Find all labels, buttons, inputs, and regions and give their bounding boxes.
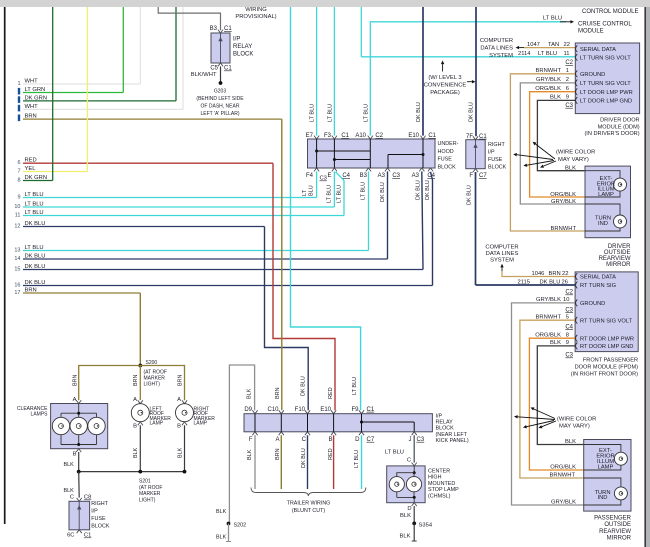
svg-text:DRIVER DOOR: DRIVER DOOR bbox=[600, 118, 639, 124]
svg-text:(IN RIGHT FRONT DOOR): (IN RIGHT FRONT DOOR) bbox=[571, 372, 638, 378]
svg-text:RT DOOR LMP GND: RT DOOR LMP GND bbox=[580, 344, 633, 350]
svg-text:26: 26 bbox=[562, 279, 568, 285]
svg-text:G203: G203 bbox=[214, 89, 226, 95]
svg-text:C7: C7 bbox=[367, 437, 375, 443]
svg-text:BRN: BRN bbox=[133, 375, 139, 386]
svg-text:KICK PANEL): KICK PANEL) bbox=[436, 438, 469, 444]
svg-text:LAMPS: LAMPS bbox=[31, 412, 49, 418]
svg-text:GROUND: GROUND bbox=[580, 72, 605, 78]
svg-text:1: 1 bbox=[566, 68, 569, 74]
svg-text:S354: S354 bbox=[419, 523, 433, 529]
svg-text:I/P: I/P bbox=[91, 508, 98, 514]
svg-text:LAMP: LAMP bbox=[598, 465, 614, 471]
svg-text:(BEHIND LEFT SIDE: (BEHIND LEFT SIDE bbox=[196, 96, 244, 102]
svg-text:SERIAL DATA: SERIAL DATA bbox=[580, 275, 616, 281]
svg-text:11: 11 bbox=[563, 51, 569, 57]
svg-text:BRNWHT: BRNWHT bbox=[550, 472, 576, 478]
svg-text:5: 5 bbox=[566, 314, 569, 320]
svg-text:ORG/BLK: ORG/BLK bbox=[550, 464, 576, 470]
svg-text:E10: E10 bbox=[408, 133, 419, 139]
svg-text:BLK: BLK bbox=[550, 95, 561, 101]
svg-text:LT BLU: LT BLU bbox=[543, 16, 562, 22]
svg-text:RT TURN SIG: RT TURN SIG bbox=[580, 283, 616, 289]
svg-text:BLK: BLK bbox=[133, 447, 139, 458]
svg-text:REARVIEW: REARVIEW bbox=[599, 529, 631, 535]
svg-text:7: 7 bbox=[17, 169, 20, 175]
svg-text:9: 9 bbox=[17, 195, 20, 201]
svg-text:GRY/BLK: GRY/BLK bbox=[536, 297, 561, 303]
svg-text:LIGHT): LIGHT) bbox=[139, 497, 156, 503]
svg-text:FUSE: FUSE bbox=[91, 516, 106, 522]
svg-text:LAMP: LAMP bbox=[598, 192, 614, 198]
svg-text:8: 8 bbox=[17, 178, 20, 184]
svg-text:MIRROR: MIRROR bbox=[607, 536, 632, 542]
svg-text:PROVISIONAL): PROVISIONAL) bbox=[235, 14, 276, 20]
svg-text:DK BLU: DK BLU bbox=[415, 180, 421, 200]
svg-text:GRY/BLK: GRY/BLK bbox=[551, 199, 576, 205]
svg-text:OUTSIDE: OUTSIDE bbox=[604, 522, 631, 528]
svg-text:BLOCK: BLOCK bbox=[438, 165, 457, 171]
svg-text:LT BLU: LT BLU bbox=[354, 450, 360, 468]
svg-text:12: 12 bbox=[14, 224, 20, 230]
svg-text:B3: B3 bbox=[210, 26, 218, 32]
svg-text:SYSTEM: SYSTEM bbox=[490, 258, 514, 264]
svg-text:F9: F9 bbox=[351, 407, 359, 413]
svg-text:F10: F10 bbox=[295, 407, 306, 413]
svg-text:DATA LINES: DATA LINES bbox=[480, 46, 513, 52]
svg-text:F4: F4 bbox=[306, 173, 314, 179]
svg-text:BRN: BRN bbox=[73, 375, 79, 386]
svg-text:(CHMSL): (CHMSL) bbox=[428, 493, 451, 499]
svg-text:(WIRE COLOR: (WIRE COLOR bbox=[556, 150, 595, 156]
svg-text:HOOD: HOOD bbox=[438, 149, 454, 155]
svg-text:LT: LT bbox=[302, 189, 308, 196]
svg-text:CONVENIENCE: CONVENIENCE bbox=[424, 82, 467, 88]
svg-text:CRUISE CONTROL: CRUISE CONTROL bbox=[578, 22, 632, 28]
svg-text:D: D bbox=[407, 506, 411, 512]
svg-text:FRONT PASSENGER: FRONT PASSENGER bbox=[583, 357, 638, 363]
svg-text:2: 2 bbox=[566, 77, 569, 83]
svg-text:BLK: BLK bbox=[64, 488, 75, 494]
svg-text:22: 22 bbox=[564, 42, 570, 48]
svg-text:B: B bbox=[177, 424, 181, 430]
svg-text:RT TURN SIG VOLT: RT TURN SIG VOLT bbox=[580, 318, 633, 324]
svg-text:DK BLU: DK BLU bbox=[380, 182, 386, 202]
svg-text:10: 10 bbox=[563, 297, 569, 303]
svg-text:I/P: I/P bbox=[233, 37, 240, 43]
svg-text:13: 13 bbox=[14, 248, 20, 254]
svg-text:(AT ROOF: (AT ROOF bbox=[139, 485, 162, 491]
svg-text:MODULE: MODULE bbox=[578, 29, 604, 35]
svg-text:FUSE: FUSE bbox=[438, 157, 453, 163]
svg-text:LT TURN SIG VOLT: LT TURN SIG VOLT bbox=[580, 81, 631, 87]
svg-text:BLK: BLK bbox=[565, 439, 576, 445]
svg-text:BLOCK: BLOCK bbox=[436, 426, 455, 432]
svg-text:1: 1 bbox=[17, 81, 20, 87]
svg-text:BLOCK: BLOCK bbox=[488, 165, 507, 171]
svg-text:MARKER: MARKER bbox=[144, 376, 166, 382]
svg-text:A: A bbox=[133, 397, 137, 403]
svg-text:10: 10 bbox=[14, 204, 20, 210]
svg-text:BRNWHT: BRNWHT bbox=[536, 68, 562, 74]
svg-text:C: C bbox=[407, 458, 411, 464]
svg-text:F: F bbox=[249, 437, 253, 443]
svg-text:C2: C2 bbox=[565, 60, 573, 66]
svg-text:RED: RED bbox=[328, 448, 334, 460]
svg-text:17: 17 bbox=[14, 290, 20, 296]
svg-text:C10: C10 bbox=[267, 407, 279, 413]
svg-text:MAY VARY): MAY VARY) bbox=[558, 157, 589, 163]
svg-text:MODULE (DDM): MODULE (DDM) bbox=[598, 125, 640, 131]
svg-text:16: 16 bbox=[14, 283, 20, 289]
svg-text:RELAY: RELAY bbox=[436, 420, 454, 426]
svg-text:C3: C3 bbox=[565, 103, 573, 109]
svg-text:DK BLU: DK BLU bbox=[416, 102, 422, 122]
svg-text:9: 9 bbox=[566, 340, 569, 346]
svg-text:LT BLU: LT BLU bbox=[327, 185, 333, 203]
svg-text:C3: C3 bbox=[392, 173, 400, 179]
svg-text:RT DOOR LMP PWR: RT DOOR LMP PWR bbox=[580, 336, 634, 342]
svg-text:C3: C3 bbox=[320, 176, 327, 182]
svg-text:DK BLU: DK BLU bbox=[425, 180, 431, 200]
svg-text:FUSE: FUSE bbox=[488, 157, 503, 163]
svg-text:6: 6 bbox=[566, 86, 569, 92]
svg-text:LT BLU: LT BLU bbox=[352, 377, 358, 395]
svg-text:1046: 1046 bbox=[532, 271, 545, 277]
svg-text:J: J bbox=[409, 437, 412, 443]
svg-text:BRNWHT: BRNWHT bbox=[536, 314, 562, 320]
svg-text:22: 22 bbox=[562, 271, 568, 277]
svg-text:SYSTEM: SYSTEM bbox=[489, 53, 513, 59]
svg-text:SERIAL DATA: SERIAL DATA bbox=[580, 47, 616, 53]
svg-text:BRN: BRN bbox=[178, 375, 184, 386]
svg-text:DOOR MODULE (FPDM): DOOR MODULE (FPDM) bbox=[575, 365, 639, 371]
svg-text:DK BLU: DK BLU bbox=[540, 279, 561, 285]
svg-text:B: B bbox=[133, 424, 137, 430]
svg-text:BLOCK: BLOCK bbox=[91, 524, 110, 530]
svg-text:BLK: BLK bbox=[565, 165, 576, 171]
svg-text:LT DOOR LMP GND: LT DOOR LMP GND bbox=[580, 99, 632, 105]
svg-text:6C: 6C bbox=[67, 533, 74, 539]
svg-text:(BLUNT CUT): (BLUNT CUT) bbox=[292, 508, 325, 514]
svg-text:A3: A3 bbox=[412, 173, 420, 179]
svg-text:C4: C4 bbox=[342, 173, 350, 179]
svg-text:BLK: BLK bbox=[247, 449, 253, 460]
svg-text:8: 8 bbox=[566, 332, 569, 338]
svg-text:BLU: BLU bbox=[308, 185, 314, 196]
svg-text:7F: 7F bbox=[466, 134, 473, 140]
svg-text:DK BLU: DK BLU bbox=[301, 448, 307, 468]
svg-text:BLK: BLK bbox=[400, 534, 411, 540]
svg-text:COMPUTER: COMPUTER bbox=[480, 38, 513, 44]
svg-text:(WIRE COLOR: (WIRE COLOR bbox=[557, 417, 596, 423]
svg-text:(IN DRIVER'S DOOR): (IN DRIVER'S DOOR) bbox=[584, 131, 639, 137]
svg-text:C1: C1 bbox=[224, 26, 232, 32]
svg-text:PASSENGER: PASSENGER bbox=[594, 516, 632, 522]
svg-text:CONTROL MODULE: CONTROL MODULE bbox=[582, 9, 638, 15]
svg-text:C1: C1 bbox=[84, 533, 91, 539]
svg-text:LEFT 'A' PILLAR): LEFT 'A' PILLAR) bbox=[200, 111, 239, 117]
svg-text:F: F bbox=[469, 173, 473, 179]
svg-text:UNDER-: UNDER- bbox=[438, 141, 459, 147]
svg-text:C1: C1 bbox=[428, 133, 436, 139]
svg-text:A: A bbox=[73, 397, 77, 403]
svg-text:C4: C4 bbox=[565, 324, 573, 330]
svg-text:DK BLU: DK BLU bbox=[301, 376, 307, 396]
svg-text:S201: S201 bbox=[139, 478, 151, 484]
svg-text:E: E bbox=[327, 173, 331, 179]
svg-text:A: A bbox=[275, 437, 279, 443]
svg-text:C3: C3 bbox=[417, 437, 425, 443]
svg-text:BRN: BRN bbox=[275, 387, 281, 399]
svg-text:RIGHT: RIGHT bbox=[91, 501, 108, 507]
svg-text:A10: A10 bbox=[355, 133, 366, 139]
svg-text:E7: E7 bbox=[306, 133, 314, 139]
svg-text:GROUND: GROUND bbox=[580, 301, 605, 307]
svg-text:C3: C3 bbox=[565, 307, 573, 313]
svg-text:I/P: I/P bbox=[436, 413, 443, 419]
svg-text:(NEAR LEFT: (NEAR LEFT bbox=[436, 432, 468, 438]
svg-text:C1: C1 bbox=[367, 407, 375, 413]
svg-text:OF DASH, NEAR: OF DASH, NEAR bbox=[201, 104, 240, 110]
svg-text:D9: D9 bbox=[244, 407, 252, 413]
svg-text:C1: C1 bbox=[224, 66, 232, 72]
svg-text:LT BLU: LT BLU bbox=[363, 104, 369, 122]
svg-text:BLK: BLK bbox=[178, 447, 184, 458]
svg-text:COMPUTER: COMPUTER bbox=[485, 245, 518, 251]
svg-text:BLK: BLK bbox=[550, 340, 561, 346]
svg-text:LT BLU: LT BLU bbox=[361, 182, 367, 200]
svg-text:2115: 2115 bbox=[518, 279, 530, 285]
svg-text:LT BLU: LT BLU bbox=[337, 185, 343, 203]
svg-text:DATA LINES: DATA LINES bbox=[486, 251, 519, 257]
svg-text:DK BLU: DK BLU bbox=[467, 185, 473, 205]
svg-text:RED: RED bbox=[328, 387, 334, 399]
svg-text:ORG/BLK: ORG/BLK bbox=[535, 86, 561, 92]
svg-text:C8: C8 bbox=[84, 495, 91, 501]
svg-text:B: B bbox=[73, 452, 77, 458]
svg-text:MAY VARY): MAY VARY) bbox=[559, 424, 590, 430]
svg-text:IND: IND bbox=[598, 495, 608, 501]
svg-text:A: A bbox=[177, 397, 181, 403]
svg-text:C5: C5 bbox=[210, 66, 218, 72]
svg-text:15: 15 bbox=[14, 267, 20, 273]
svg-text:LT TURN SIG VOLT: LT TURN SIG VOLT bbox=[580, 55, 631, 61]
svg-text:BLK: BLK bbox=[216, 509, 227, 515]
svg-text:BRNWHT: BRNWHT bbox=[551, 226, 577, 232]
svg-text:LT DOOR LMP PWR: LT DOOR LMP PWR bbox=[580, 90, 633, 96]
svg-text:LT BLU: LT BLU bbox=[385, 450, 404, 456]
svg-text:6: 6 bbox=[17, 160, 20, 166]
svg-text:LAMP: LAMP bbox=[150, 421, 164, 427]
svg-text:2114: 2114 bbox=[518, 51, 531, 57]
svg-text:F3: F3 bbox=[324, 133, 332, 139]
svg-text:1047: 1047 bbox=[527, 42, 540, 48]
svg-text:BLK: BLK bbox=[216, 535, 227, 541]
svg-text:9: 9 bbox=[566, 95, 569, 101]
svg-text:STOP LAMP: STOP LAMP bbox=[428, 487, 459, 493]
svg-text:B3: B3 bbox=[360, 173, 368, 179]
svg-text:BLK: BLK bbox=[400, 513, 411, 519]
svg-text:(AT ROOF: (AT ROOF bbox=[144, 369, 167, 375]
svg-text:CENTER: CENTER bbox=[428, 469, 450, 475]
svg-text:11: 11 bbox=[15, 213, 21, 219]
svg-text:DK BLU: DK BLU bbox=[469, 102, 475, 122]
svg-text:MOUNTED: MOUNTED bbox=[428, 481, 455, 487]
svg-text:C: C bbox=[70, 495, 74, 501]
svg-text:MIRROR: MIRROR bbox=[606, 262, 631, 268]
svg-text:C1: C1 bbox=[479, 134, 487, 140]
svg-text:LT BLU: LT BLU bbox=[310, 104, 316, 122]
svg-text:D: D bbox=[355, 437, 360, 443]
svg-text:IND: IND bbox=[598, 221, 608, 227]
svg-text:A3: A3 bbox=[378, 173, 386, 179]
svg-text:BLK: BLK bbox=[64, 462, 75, 468]
svg-text:RIGHT: RIGHT bbox=[488, 142, 505, 148]
svg-text:PACKAGE): PACKAGE) bbox=[430, 90, 460, 96]
svg-text:B: B bbox=[328, 437, 332, 443]
svg-text:BRN: BRN bbox=[549, 271, 561, 277]
svg-text:LT BLU: LT BLU bbox=[538, 51, 557, 57]
svg-text:TAN: TAN bbox=[548, 42, 559, 48]
svg-text:LT BLU: LT BLU bbox=[328, 104, 334, 122]
svg-text:C2: C2 bbox=[565, 290, 573, 296]
svg-text:GRY/BLK: GRY/BLK bbox=[551, 499, 576, 505]
svg-text:GRY/BLK: GRY/BLK bbox=[536, 77, 561, 83]
svg-text:TRAILER WIRING: TRAILER WIRING bbox=[287, 501, 331, 507]
svg-text:C3: C3 bbox=[565, 353, 573, 359]
svg-text:BLK/WHT: BLK/WHT bbox=[191, 72, 217, 78]
svg-text:C2: C2 bbox=[375, 133, 383, 139]
svg-text:C7: C7 bbox=[479, 173, 487, 179]
svg-text:ORG/BLK: ORG/BLK bbox=[535, 332, 561, 338]
svg-text:WIRING: WIRING bbox=[245, 7, 267, 13]
svg-text:I/P: I/P bbox=[488, 150, 495, 156]
svg-text:S202: S202 bbox=[234, 523, 247, 529]
svg-text:LIGHT): LIGHT) bbox=[144, 382, 161, 388]
svg-text:MARKER: MARKER bbox=[139, 491, 161, 497]
svg-text:BLK: BLK bbox=[247, 388, 253, 399]
svg-text:C1: C1 bbox=[341, 133, 349, 139]
svg-text:BRN: BRN bbox=[275, 448, 281, 460]
svg-text:RELAY: RELAY bbox=[233, 44, 252, 50]
svg-text:BLOCK: BLOCK bbox=[233, 52, 253, 58]
svg-text:LAMP: LAMP bbox=[194, 421, 208, 427]
svg-text:E10: E10 bbox=[320, 407, 331, 413]
svg-text:14: 14 bbox=[14, 256, 20, 262]
svg-text:(W/ LEVEL 3: (W/ LEVEL 3 bbox=[428, 75, 461, 81]
svg-text:C: C bbox=[302, 437, 307, 443]
svg-text:HIGH: HIGH bbox=[428, 475, 442, 481]
svg-text:ORG/BLK: ORG/BLK bbox=[550, 192, 576, 198]
